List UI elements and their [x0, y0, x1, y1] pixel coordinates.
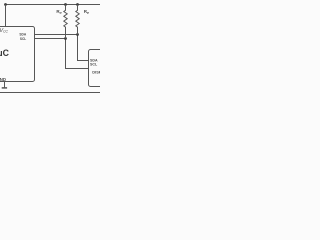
svg-text:RP: RP [56, 9, 61, 15]
wire GND pin stub [4, 82, 6, 88]
ground symbol [2, 87, 7, 89]
resistor R2 (pull-up Rp on SDA) [76, 5, 79, 35]
wire GND rail [0, 92, 100, 94]
wire Vcc to microcontroller [5, 5, 7, 27]
svg-text:RP: RP [84, 9, 89, 15]
node SCL junction [64, 37, 67, 40]
node SDA junction [76, 33, 79, 36]
wire SCL net [35, 39, 89, 69]
peripheral U2 display box [89, 50, 115, 87]
svg-text:SCL: SCL [90, 62, 98, 67]
svg-text:GND: GND [0, 77, 6, 82]
svg-text:DISP: DISP [92, 69, 100, 74]
node rail junction R2 [76, 3, 79, 6]
svg-text:µC: µC [0, 48, 10, 58]
wire Vcc rail [5, 4, 100, 6]
wire SDA net [35, 35, 89, 61]
svg-text:SCL: SCL [20, 36, 27, 41]
resistor R1 (pull-up Rp on SCL) [64, 5, 67, 39]
microcontroller U1 box [0, 27, 35, 82]
node rail junction R1 [64, 3, 67, 6]
node Vcc tap junction [4, 3, 7, 6]
svg-text:VCC: VCC [0, 28, 9, 34]
